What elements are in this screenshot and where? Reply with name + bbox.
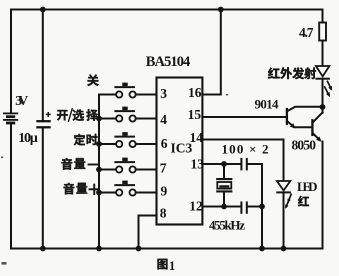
node collector junction bbox=[320, 104, 326, 110]
svg-text:9: 9 bbox=[161, 183, 168, 198]
svg-text:8050: 8050 bbox=[292, 138, 317, 153]
svg-text:6: 6 bbox=[161, 136, 168, 151]
node: cap junction on bottom rail bbox=[40, 246, 46, 252]
wire pin 8 to ground bbox=[139, 216, 157, 249]
label yinliang- (vol-) bbox=[62, 158, 86, 169]
label hongwai fashe (IR emit) bbox=[268, 67, 316, 79]
pushbutton switch S1 guan (off) bbox=[99, 83, 157, 98]
wire top supply rail bbox=[11, 9, 323, 11]
LED D1 infrared emitter bbox=[316, 66, 330, 79]
wire switch common rail bbox=[98, 95, 100, 249]
svg-text:10µ: 10µ bbox=[18, 131, 38, 146]
label hong (red) bbox=[298, 196, 309, 206]
node pin13/resonator bbox=[221, 161, 227, 167]
label kai/xuanze (on/select) bbox=[57, 110, 98, 121]
wire bottom ground rail bbox=[11, 248, 323, 250]
wire pin 12 net bbox=[202, 206, 240, 208]
capacitor C2b 100pF (bottom) bbox=[241, 201, 246, 213]
red LED emission arrows bbox=[285, 194, 291, 209]
svg-text:BA5104: BA5104 bbox=[146, 54, 191, 70]
wire caps common to ground bbox=[261, 164, 263, 249]
wire left rail upper (to battery +) bbox=[10, 10, 12, 113]
wire pin 13 net bbox=[202, 163, 240, 165]
transistor Q2 8050 bbox=[312, 112, 322, 141]
capacitor C 10u electrolytic bbox=[42, 10, 44, 121]
node switch rail to ground rail bbox=[96, 246, 102, 252]
wire Q1 emitter to Q2 base bbox=[295, 126, 312, 128]
pushbutton switch S2 kai/select bbox=[99, 107, 157, 122]
wire left rail lower (battery - to bottom) bbox=[10, 124, 12, 249]
capacitor C2a 100pF (top) bbox=[241, 158, 246, 170]
svg-text:8: 8 bbox=[160, 206, 167, 221]
svg-text:16: 16 bbox=[188, 85, 202, 100]
IR LED emission arrows bbox=[325, 81, 332, 97]
pushbutton switch S5 vol+ bbox=[99, 181, 157, 196]
wire pin 14 to red LED bbox=[202, 140, 283, 181]
scan speckles bbox=[1, 94, 228, 265]
ceramic resonator X1 455kHz bbox=[216, 164, 232, 207]
label figure 1 bbox=[157, 259, 167, 269]
wire IR LED cathode down bbox=[322, 80, 324, 113]
pushbutton switch S3 timer bbox=[99, 132, 157, 147]
svg-text:LED: LED bbox=[297, 179, 318, 194]
svg-text:7: 7 bbox=[160, 161, 167, 176]
svg-text:15: 15 bbox=[188, 107, 202, 122]
svg-text:12: 12 bbox=[189, 199, 203, 214]
wire red LED to ground bbox=[283, 193, 285, 249]
battery B1 3V bbox=[3, 113, 18, 123]
op-amp U1 IC3 BA5104 body bbox=[157, 78, 203, 225]
resistor R 4.7 bbox=[322, 10, 324, 23]
node switch rail junction row 5 bbox=[96, 190, 102, 196]
svg-text:14: 14 bbox=[190, 130, 204, 145]
node: battery/cap junction on top rail bbox=[40, 7, 46, 13]
svg-text:4.7: 4.7 bbox=[299, 25, 314, 40]
wire pin 15 to Q1 base bbox=[202, 116, 286, 118]
wire pin 16 to top rail bbox=[202, 10, 220, 95]
label guan (off) bbox=[87, 75, 99, 86]
wire Q2 emitter to ground rail bbox=[322, 142, 324, 249]
LED D2 red indicator bbox=[277, 181, 290, 192]
svg-text:3V: 3V bbox=[15, 94, 28, 109]
svg-text:1: 1 bbox=[169, 259, 175, 273]
svg-text:3: 3 bbox=[160, 86, 167, 101]
label yinliang+ (vol+) bbox=[64, 183, 88, 194]
transistor Q1 9014 bbox=[287, 107, 323, 129]
node switch rail junction row 3 bbox=[96, 141, 102, 147]
pushbutton switch S4 vol- bbox=[99, 158, 157, 173]
node switch rail junction row 4 bbox=[96, 167, 102, 173]
label dingshi (timer) bbox=[74, 134, 98, 145]
svg-text:455kHz: 455kHz bbox=[209, 217, 245, 232]
svg-text:100 × 2: 100 × 2 bbox=[222, 142, 269, 157]
svg-text:4: 4 bbox=[160, 112, 167, 127]
node resonator/pin12 bbox=[221, 204, 227, 210]
node switch rail junction row 2 bbox=[96, 116, 102, 122]
plus sign of capacitor bbox=[46, 112, 51, 117]
svg-text:9014: 9014 bbox=[255, 97, 280, 112]
